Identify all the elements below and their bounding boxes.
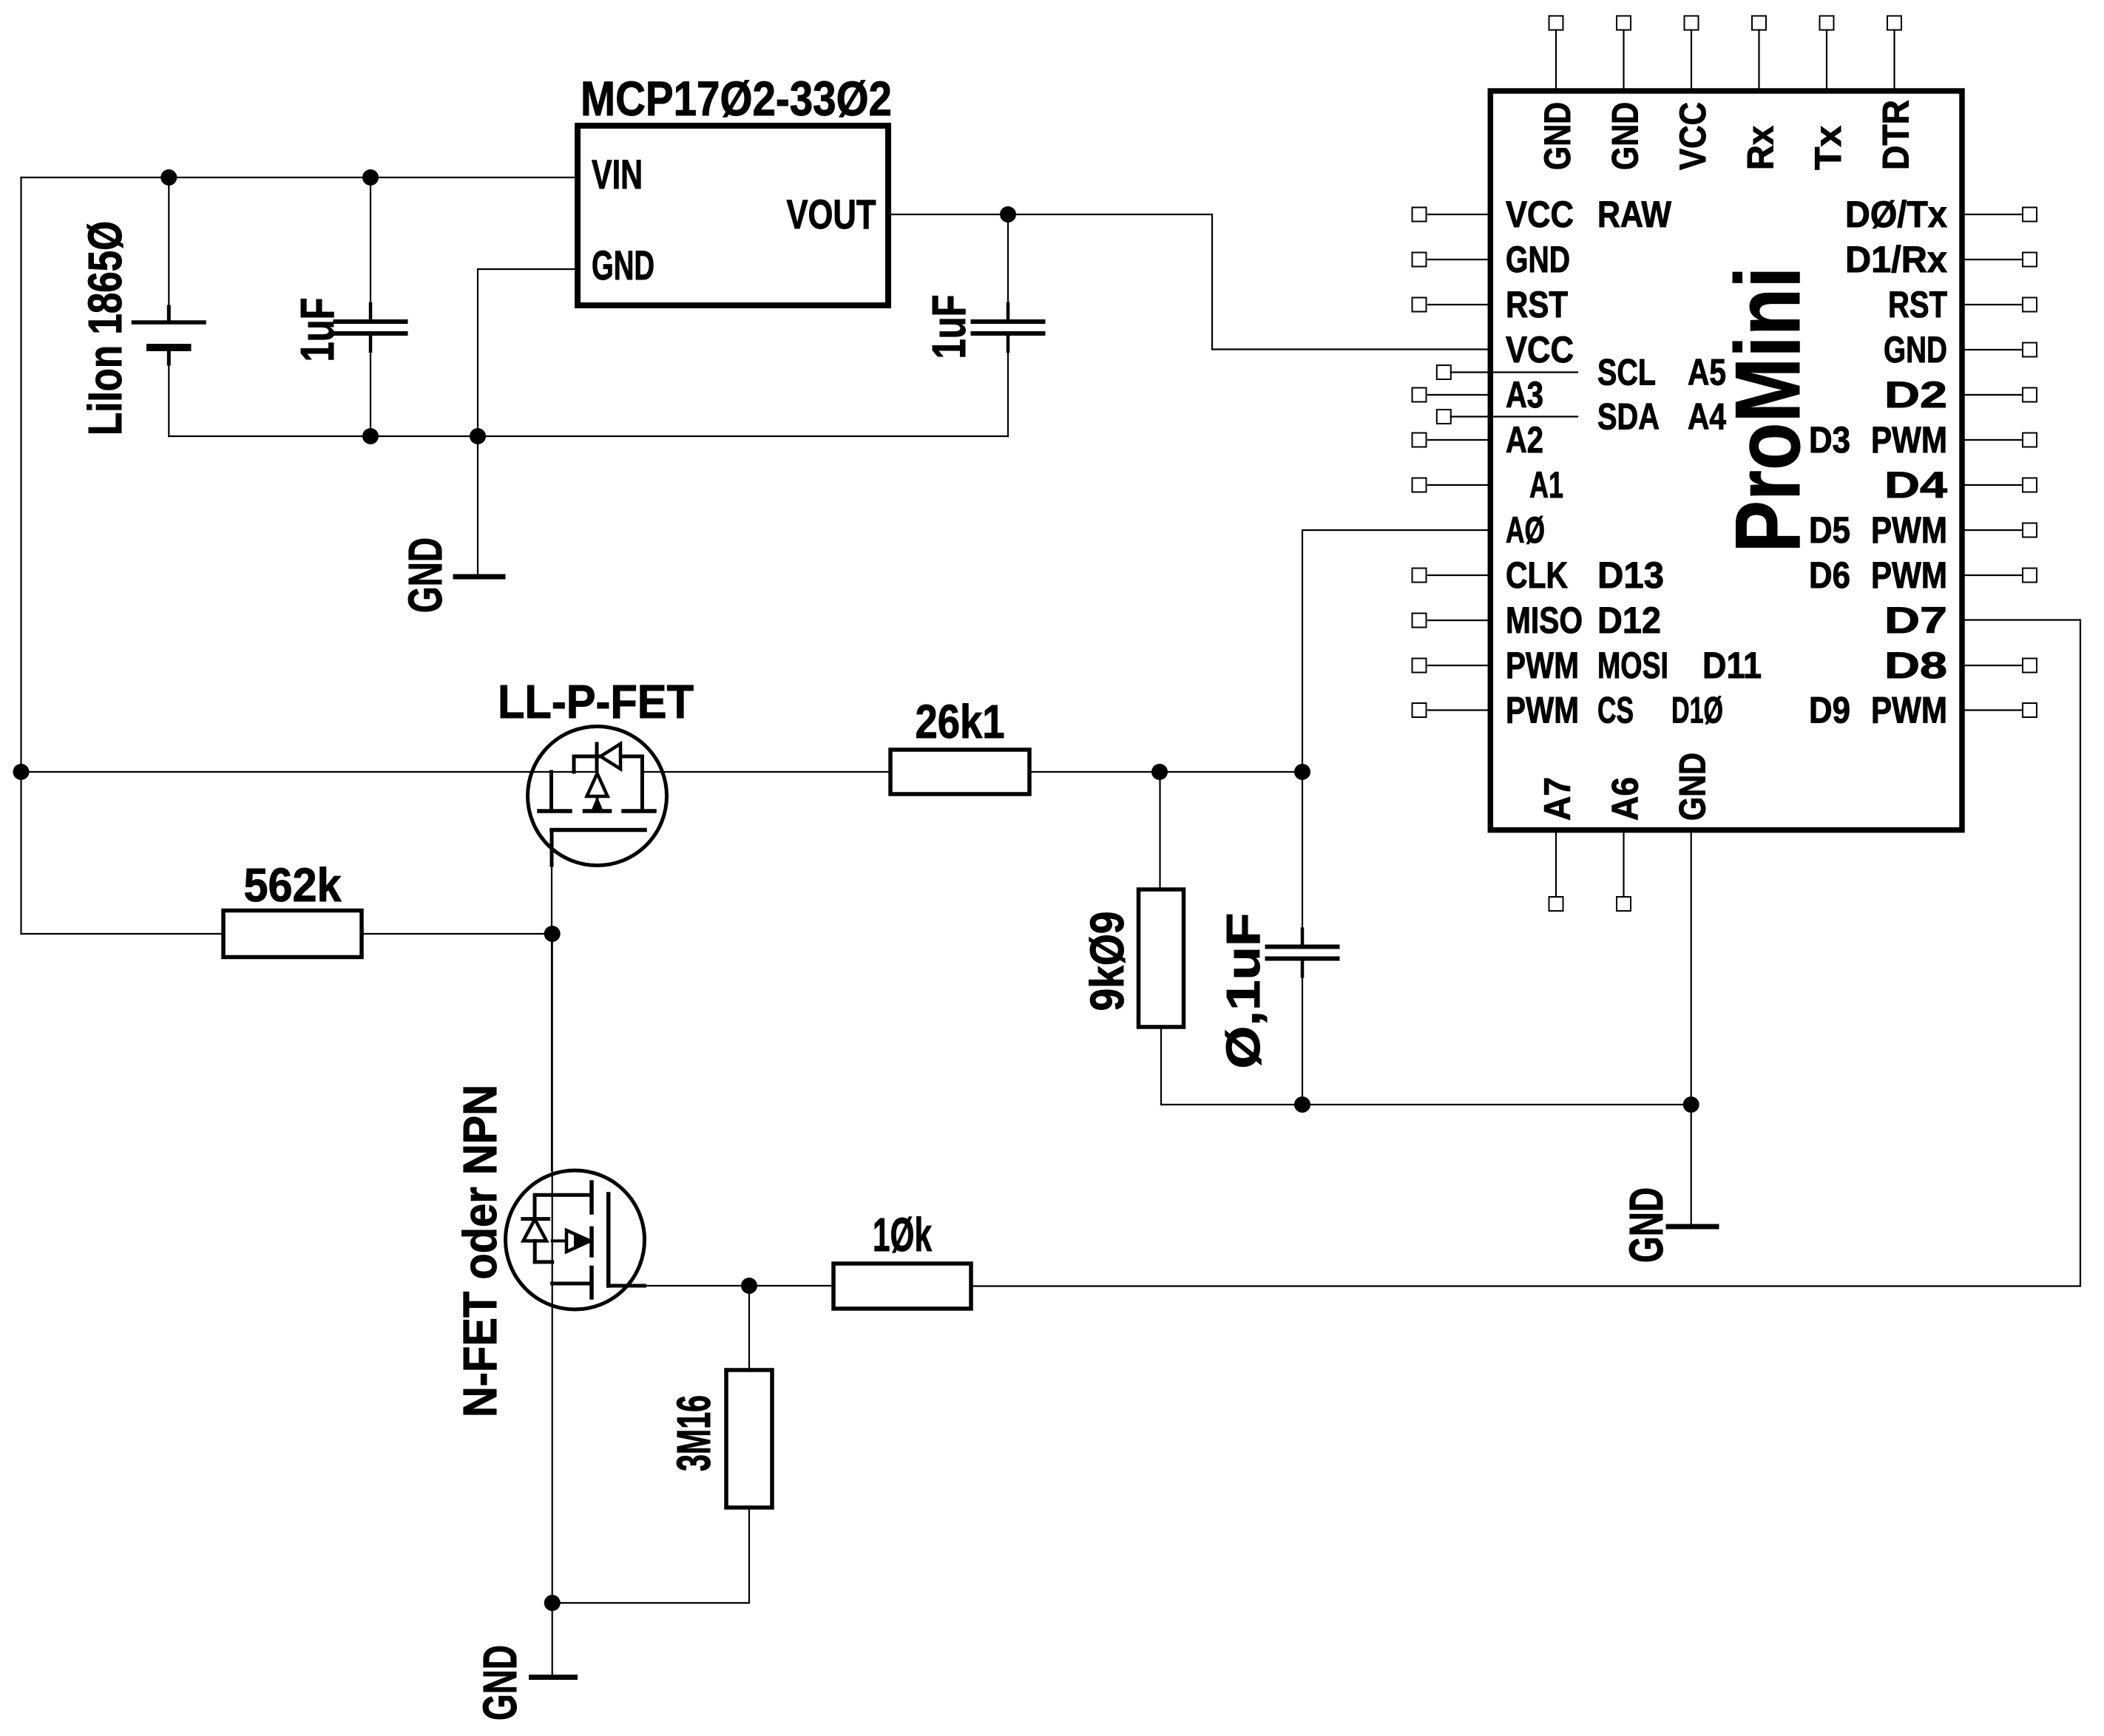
resistor R5 3M16 <box>726 1370 772 1508</box>
svg-text:DTR: DTR <box>1875 100 1917 170</box>
svg-text:1Øk: 1Øk <box>873 1208 932 1261</box>
svg-text:D1/Rx: D1/Rx <box>1845 239 1947 280</box>
wire node to R3 9k09 <box>1159 772 1160 889</box>
svg-text:D12: D12 <box>1597 600 1661 641</box>
svg-text:1uF: 1uF <box>291 298 344 362</box>
svg-text:VIN: VIN <box>592 151 643 197</box>
svg-text:SDA: SDA <box>1597 396 1660 438</box>
wire A0 to divider <box>1302 530 1488 772</box>
svg-text:GND: GND <box>1672 753 1714 821</box>
svg-text:GND: GND <box>1620 1187 1673 1263</box>
wire top rail battery+ to VIN <box>21 177 578 178</box>
svg-text:3M16: 3M16 <box>667 1395 720 1471</box>
svg-text:PWM: PWM <box>1871 690 1947 731</box>
svg-text:MISO: MISO <box>1506 600 1583 641</box>
svg-text:A7: A7 <box>1537 777 1578 821</box>
svg-text:D4: D4 <box>1884 464 1947 506</box>
svg-text:AØ: AØ <box>1506 509 1545 551</box>
node Q2 source / R5 <box>544 1595 561 1611</box>
ground symbol at Q2 <box>532 1675 575 1680</box>
svg-text:VCC: VCC <box>1506 329 1574 370</box>
pin right D3 PWM <box>1962 433 2037 447</box>
wire battery+ to Q1 source <box>21 771 598 773</box>
capacitor C3 0,1uF <box>1268 772 1338 1105</box>
svg-text:PWM: PWM <box>1506 690 1579 731</box>
svg-text:GND: GND <box>1884 329 1947 370</box>
svg-text:D8: D8 <box>1884 645 1947 686</box>
pin left SCL <box>1437 365 1577 379</box>
svg-text:MOSI: MOSI <box>1597 645 1668 686</box>
svg-text:GND: GND <box>473 1645 527 1720</box>
wire Q1 drain to R1 26k1 <box>642 771 890 773</box>
pin left A1 <box>1413 478 1491 492</box>
resistor R4 10k <box>833 1264 971 1309</box>
svg-text:VCC: VCC <box>1506 194 1574 235</box>
node top rail / C1 <box>362 169 379 186</box>
svg-text:562k: 562k <box>244 858 342 912</box>
svg-text:GND: GND <box>399 538 452 613</box>
svg-text:GND: GND <box>1506 239 1570 280</box>
pin left PWM <box>1413 659 1491 673</box>
pin left PWM <box>1413 703 1491 717</box>
svg-text:D2: D2 <box>1884 374 1947 416</box>
svg-text:CLK: CLK <box>1506 555 1568 596</box>
node bottom rail / C1 <box>362 428 379 444</box>
pin bottom A7 <box>1549 830 1563 911</box>
pin left A3 <box>1413 388 1491 402</box>
svg-text:D3: D3 <box>1809 419 1850 461</box>
svg-text:1uF: 1uF <box>922 295 975 359</box>
svg-text:GND: GND <box>1605 102 1646 170</box>
svg-text:D1Ø: D1Ø <box>1671 690 1723 731</box>
pin left CLK <box>1413 569 1491 583</box>
svg-text:PWM: PWM <box>1871 555 1947 596</box>
svg-text:26k1: 26k1 <box>916 695 1005 748</box>
node left rail / Q1 source <box>13 764 30 780</box>
wire U1 GND down to ground <box>477 436 478 574</box>
pin right D5 PWM <box>1962 523 2037 538</box>
pin left MISO <box>1413 614 1491 628</box>
wire Q2 gate to node <box>645 1285 750 1286</box>
node divider / R3 <box>1151 764 1168 780</box>
svg-text:A6: A6 <box>1605 777 1646 821</box>
svg-text:9kØ9: 9kØ9 <box>1080 912 1134 1011</box>
svg-text:PWM: PWM <box>1871 419 1947 461</box>
transistor Q1 LL-P-FET <box>528 727 667 866</box>
svg-text:A3: A3 <box>1506 374 1543 416</box>
svg-text:DØ/Tx: DØ/Tx <box>1845 194 1947 235</box>
node Q1 gate / R2 562k <box>544 926 561 942</box>
node bottom rail / U1 GND <box>470 428 486 444</box>
node GND rail / ProMini GND <box>1683 1096 1699 1113</box>
pin left A2 <box>1413 433 1491 447</box>
svg-text:D7: D7 <box>1884 600 1947 641</box>
regulator U1 MCP1702-3302 box <box>578 126 888 305</box>
svg-text:PWM: PWM <box>1506 645 1579 686</box>
wire R5 bottom <box>552 1508 749 1603</box>
wire R4 to D7 <box>971 620 2080 1286</box>
svg-text:D6: D6 <box>1809 555 1850 596</box>
pin left RST <box>1413 298 1491 312</box>
wire left rail to R2 <box>21 933 224 935</box>
svg-text:LiIon 1865Ø: LiIon 1865Ø <box>78 221 132 435</box>
svg-text:Rx: Rx <box>1740 126 1782 170</box>
svg-text:ProMini: ProMini <box>1717 267 1819 553</box>
wire R3 bottom to GND rail <box>1160 1027 1162 1105</box>
svg-text:Ø,1uF: Ø,1uF <box>1217 913 1270 1069</box>
wire node down to R5 3M16 <box>748 1286 750 1370</box>
wire U1 GND pin jog <box>478 269 578 436</box>
ground symbol at ProMini <box>1668 1224 1716 1230</box>
pin right D9 PWM <box>1962 703 2037 717</box>
svg-text:A2: A2 <box>1506 419 1543 461</box>
node divider / C3 / A0 <box>1294 764 1310 780</box>
node GND rail / C3 <box>1294 1096 1310 1113</box>
pin top GND <box>1549 16 1563 92</box>
svg-text:VOUT: VOUT <box>787 191 876 237</box>
svg-text:RAW: RAW <box>1597 194 1672 235</box>
wire Q2 drain through <box>552 934 553 1603</box>
wire node to R4 10k <box>749 1285 833 1286</box>
capacitor C1 1uF <box>336 177 406 436</box>
pin right D0/Tx <box>1962 208 2037 222</box>
wire bottom rail GND <box>169 435 1008 437</box>
pin right D1/Rx <box>1962 253 2037 267</box>
resistor R2 562k <box>223 911 362 957</box>
svg-text:VCC: VCC <box>1672 102 1714 170</box>
svg-text:CS: CS <box>1597 690 1634 731</box>
pin right D6 PWM <box>1962 569 2037 583</box>
battery BT1 LiIon 18650 <box>134 177 205 436</box>
capacitor C2 1uF <box>973 214 1043 436</box>
transistor Q2 N-FET <box>506 1170 645 1309</box>
svg-text:Tx: Tx <box>1807 126 1849 170</box>
pin top DTR <box>1887 16 1901 92</box>
svg-text:D11: D11 <box>1702 645 1762 686</box>
node top rail / battery <box>160 169 177 186</box>
svg-text:RST: RST <box>1506 284 1568 325</box>
pin top VCC <box>1685 16 1699 92</box>
node gate / R4 / R5 <box>741 1278 757 1294</box>
node VOUT / C2 <box>1000 206 1016 223</box>
pin right D8 <box>1962 659 2037 673</box>
wire R1 to divider node <box>1029 771 1302 773</box>
wire left rail battery+ down <box>20 177 21 934</box>
resistor R3 9k09 <box>1139 889 1184 1027</box>
microcontroller U2 ProMini box <box>1490 91 1962 830</box>
wire Q1 drain down <box>551 865 552 1170</box>
svg-text:MCP17Ø2-33Ø2: MCP17Ø2-33Ø2 <box>581 71 892 126</box>
svg-text:LL-P-FET: LL-P-FET <box>498 675 694 728</box>
svg-text:GND: GND <box>1537 102 1578 170</box>
svg-text:RST: RST <box>1888 284 1947 325</box>
svg-text:D13: D13 <box>1597 555 1664 596</box>
pin right D2 <box>1962 388 2037 402</box>
svg-text:A1: A1 <box>1529 464 1563 506</box>
svg-text:D5: D5 <box>1809 509 1850 551</box>
pin top GND <box>1617 16 1631 92</box>
svg-text:PWM: PWM <box>1871 509 1947 551</box>
pin bottom A6 <box>1617 830 1631 911</box>
svg-text:N-FET oder NPN: N-FET oder NPN <box>453 1085 507 1417</box>
svg-text:A5: A5 <box>1688 352 1726 393</box>
svg-text:SCL: SCL <box>1597 352 1656 393</box>
ground symbol at U1 <box>456 574 503 580</box>
wire Q2 source to ground <box>552 1603 553 1675</box>
pin top Tx <box>1820 16 1834 92</box>
svg-text:D9: D9 <box>1809 690 1850 731</box>
pin left SDA <box>1437 410 1577 424</box>
pin right RST <box>1962 298 2037 312</box>
wire R2 to gate node <box>362 933 552 935</box>
svg-text:GND: GND <box>592 242 654 288</box>
pin right D4 <box>1962 478 2037 492</box>
pin right GND <box>1962 343 2037 357</box>
resistor R1 26k1 <box>890 750 1029 794</box>
pin left VCC <box>1413 208 1491 222</box>
pin left GND <box>1413 253 1491 267</box>
wire ProMini GND pin down <box>1691 830 1692 1224</box>
pin top Rx <box>1752 16 1766 92</box>
wire GND rail under ProMini <box>1161 1104 1691 1105</box>
svg-text:A4: A4 <box>1688 396 1726 438</box>
wire VOUT to ProMini VCC <box>888 214 1488 350</box>
